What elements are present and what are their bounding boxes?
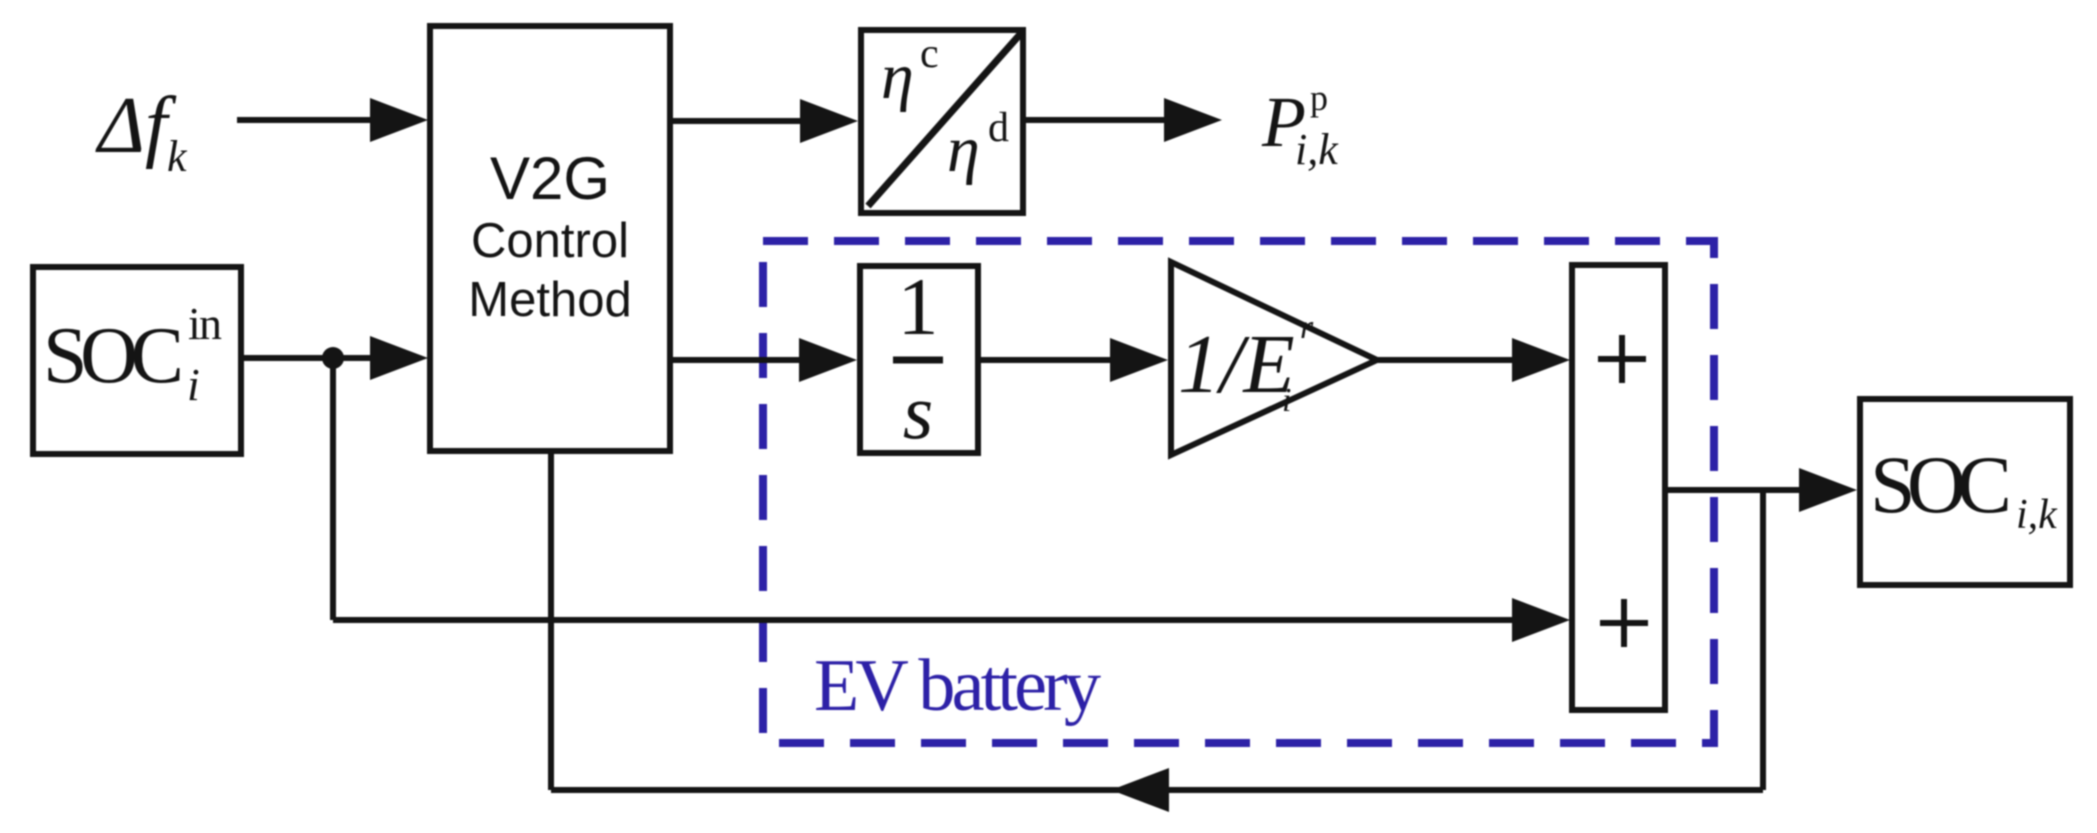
svg-text:Control: Control — [471, 214, 629, 268]
svg-text:r: r — [1300, 309, 1314, 346]
svg-text:1/E: 1/E — [1178, 318, 1295, 411]
svg-text:s: s — [903, 368, 933, 455]
svg-text:p: p — [1310, 78, 1328, 118]
svg-text:SOC: SOC — [43, 312, 184, 400]
svg-text:i,k: i,k — [1295, 125, 1339, 174]
svg-text:d: d — [988, 105, 1009, 151]
svg-text:η: η — [947, 113, 980, 186]
svg-text:EV battery: EV battery — [814, 645, 1101, 727]
svg-text:Method: Method — [468, 273, 631, 327]
svg-text:c: c — [920, 31, 939, 77]
svg-text:k: k — [167, 132, 188, 181]
svg-text:in: in — [188, 298, 222, 349]
svg-text:η: η — [881, 40, 914, 113]
svg-text:i,k: i,k — [2016, 492, 2058, 538]
svg-text:SOC: SOC — [1870, 439, 2012, 530]
svg-text:i: i — [187, 359, 200, 410]
svg-text:V2G: V2G — [490, 145, 610, 212]
svg-text:1: 1 — [898, 261, 939, 352]
svg-text:Δf: Δf — [95, 82, 177, 170]
svg-text:i: i — [1282, 382, 1291, 419]
